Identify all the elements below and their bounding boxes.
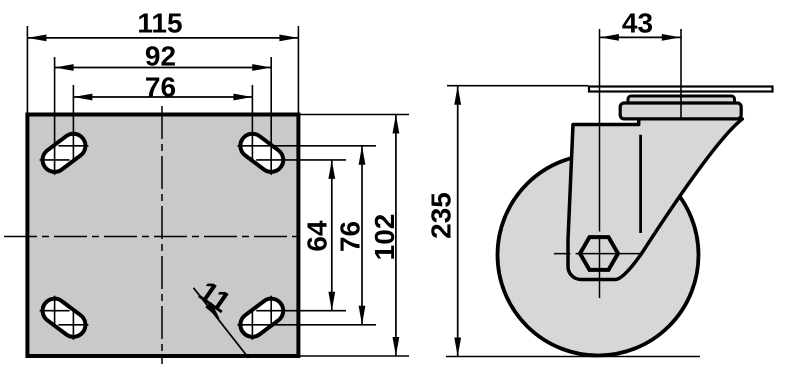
swivel lip — [628, 96, 735, 110]
svg-text:115: 115 — [137, 8, 182, 39]
svg-text:76: 76 — [335, 221, 366, 252]
dimension 235 — [457, 86, 459, 357]
swivel race — [620, 103, 741, 119]
plate horizontal centerline — [4, 236, 299, 238]
cross marks top-right slot — [252, 57, 271, 175]
plate vertical centerline — [161, 106, 163, 364]
wheel — [498, 155, 699, 356]
svg-text:102: 102 — [369, 214, 400, 261]
svg-text:64: 64 — [302, 220, 333, 252]
leader line 11 — [194, 288, 249, 358]
fork — [568, 117, 742, 280]
dimension 43 — [600, 36, 681, 38]
cross marks bottom-left slot — [40, 296, 89, 340]
swivel axis vertical centerline — [599, 29, 601, 232]
svg-text:43: 43 — [622, 8, 653, 39]
ground line — [446, 356, 700, 358]
hex axle nut — [580, 237, 618, 270]
slot hole bottom-left — [38, 294, 90, 342]
slot hole top-right — [236, 129, 288, 177]
svg-text:92: 92 — [145, 41, 176, 72]
dimension 115 — [27, 37, 298, 39]
dimension 102 vertical — [395, 115, 397, 357]
cross marks top-left slot — [40, 57, 89, 175]
axle horizontal centerline — [554, 253, 570, 255]
svg-text:76: 76 — [145, 72, 176, 103]
kingpin line — [639, 135, 642, 233]
dimension 76 vertical — [361, 146, 363, 325]
slot hole top-left — [38, 129, 90, 177]
top plate bar (side view) — [589, 87, 773, 92]
cross marks bottom-right slot — [252, 296, 271, 340]
extension lines top (115 dim) — [27, 26, 298, 115]
dimension 92 — [55, 67, 272, 69]
svg-text:235: 235 — [426, 192, 457, 239]
dimension 64 vertical — [331, 160, 333, 311]
dimension 76 horizontal — [73, 96, 252, 98]
slot hole bottom-right — [236, 294, 288, 342]
mounting plate (top view) — [27, 115, 298, 357]
extension lines right of plate — [237, 115, 409, 357]
43 right extension line — [680, 29, 682, 120]
235 top reference line — [447, 85, 588, 87]
